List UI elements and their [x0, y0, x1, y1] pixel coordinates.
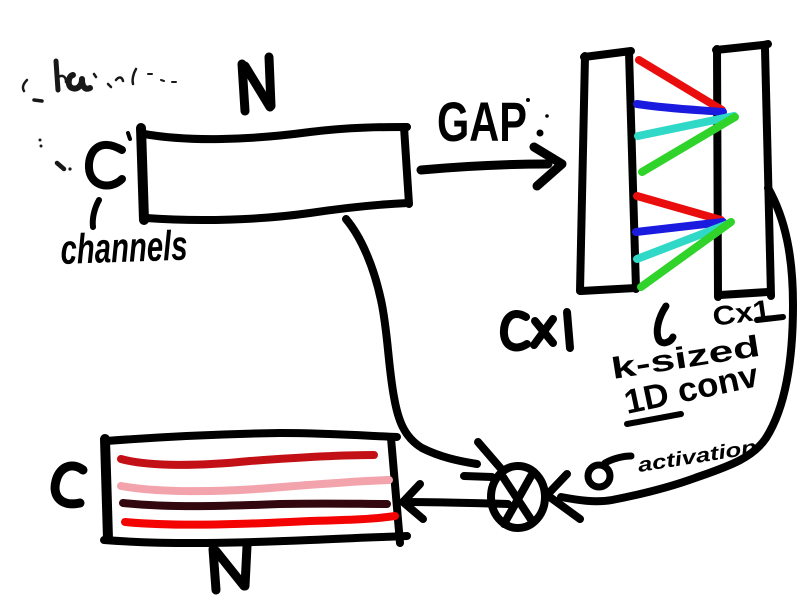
- big curve from right bar to multiply node: [547, 188, 793, 519]
- faint erased "channels" text top-left: [23, 61, 176, 171]
- svg-text:activation: activation: [636, 436, 758, 477]
- multiply node circle with X: [491, 466, 545, 528]
- left big curve from first rect to multiply node: [346, 219, 503, 477]
- bottom rectangle (output feature map): [104, 433, 407, 543]
- small stroke under C: [93, 200, 99, 227]
- arrow from multiply node to output rect: [403, 484, 508, 519]
- C label (first rect): [89, 133, 130, 186]
- Cx1 label left: [504, 312, 570, 348]
- left vertical bar Cx1: [580, 51, 636, 291]
- N label bottom: [213, 546, 247, 590]
- svg-text:GAP: GAP: [437, 90, 527, 153]
- script l label: [657, 306, 673, 343]
- svg-text:channels: channels: [60, 222, 189, 273]
- right vertical bar Cx1: [716, 44, 771, 297]
- GAP arrow: [421, 147, 562, 186]
- sigma symbol: [588, 456, 631, 487]
- C label (output rect): [55, 466, 83, 504]
- channel attention colored lines in output: [121, 455, 395, 525]
- N label top: [242, 57, 271, 111]
- colored 1D-conv connection lines, bottom group: [636, 196, 731, 287]
- first rectangle (input feature map): [141, 127, 409, 220]
- colored 1D-conv connection lines, top group: [637, 60, 735, 172]
